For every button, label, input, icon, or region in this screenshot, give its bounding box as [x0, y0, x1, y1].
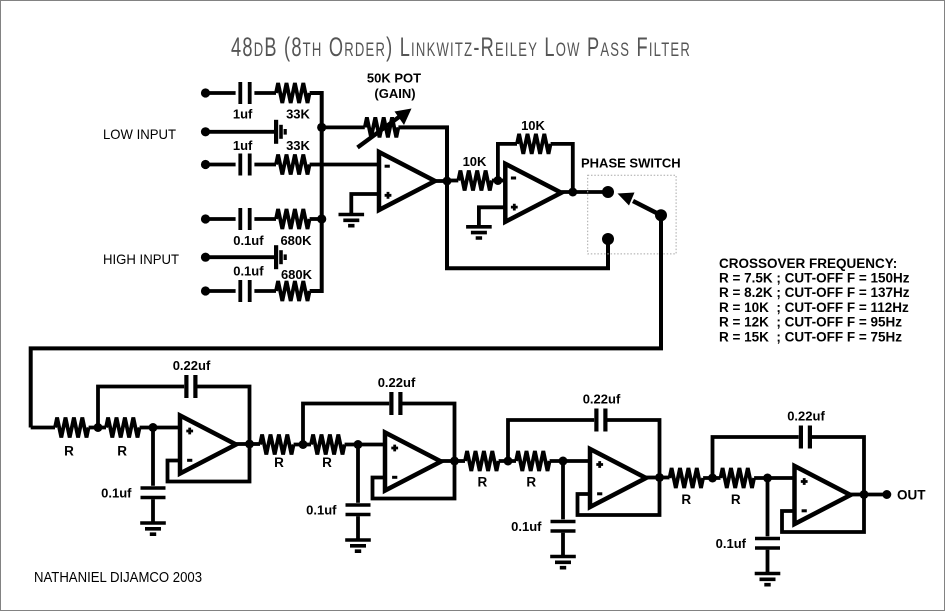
- svg-text:LOW INPUT: LOW INPUT: [103, 126, 176, 142]
- svg-text:R: R: [681, 492, 691, 507]
- svg-text:R = 10K ; CUT-OFF F = 112Hz: R = 10K ; CUT-OFF F = 112Hz: [719, 300, 909, 315]
- svg-text:0.22uf: 0.22uf: [378, 375, 416, 390]
- svg-text:R: R: [117, 443, 127, 458]
- svg-text:R: R: [322, 455, 332, 470]
- svg-text:R: R: [478, 474, 488, 489]
- svg-text:0.22uf: 0.22uf: [173, 358, 211, 373]
- svg-text:0.22uf: 0.22uf: [583, 392, 621, 407]
- svg-text:0.1uf: 0.1uf: [101, 486, 132, 501]
- svg-text:R = 8.2K ; CUT-OFF F = 137Hz: R = 8.2K ; CUT-OFF F = 137Hz: [719, 285, 910, 300]
- svg-text:680K: 680K: [281, 267, 313, 282]
- svg-text:0.1uf: 0.1uf: [233, 233, 264, 248]
- svg-text:10K: 10K: [521, 118, 545, 133]
- svg-text:1uf: 1uf: [233, 107, 253, 122]
- svg-text:10K: 10K: [463, 154, 487, 169]
- svg-text:680K: 680K: [280, 233, 312, 248]
- svg-text:OUT: OUT: [897, 488, 926, 503]
- svg-text:NATHANIEL DIJAMCO 2003: NATHANIEL DIJAMCO 2003: [34, 570, 202, 586]
- svg-text:0.1uf: 0.1uf: [716, 536, 747, 551]
- svg-text:(GAIN): (GAIN): [374, 86, 415, 101]
- svg-text:PHASE SWITCH: PHASE SWITCH: [581, 156, 681, 171]
- svg-text:0.1uf: 0.1uf: [306, 503, 337, 518]
- svg-text:48dB (8th Order) Linkwitz-Reil: 48dB (8th Order) Linkwitz-Reiley Low Pas…: [231, 32, 691, 62]
- svg-text:R: R: [731, 492, 741, 507]
- svg-text:50K POT: 50K POT: [367, 71, 421, 86]
- svg-text:R: R: [526, 474, 536, 489]
- svg-text:0.22uf: 0.22uf: [787, 409, 825, 424]
- svg-text:R: R: [274, 455, 284, 470]
- svg-text:33K: 33K: [286, 107, 310, 122]
- svg-text:33K: 33K: [286, 138, 310, 153]
- svg-text:R: R: [64, 443, 74, 458]
- svg-text:1uf: 1uf: [233, 138, 253, 153]
- svg-text:R = 15K ; CUT-OFF F = 75Hz: R = 15K ; CUT-OFF F = 75Hz: [719, 329, 902, 344]
- svg-text:HIGH INPUT: HIGH INPUT: [103, 251, 179, 267]
- svg-text:0.1uf: 0.1uf: [511, 519, 542, 534]
- svg-text:R = 12K ; CUT-OFF F = 95Hz: R = 12K ; CUT-OFF F = 95Hz: [719, 315, 902, 330]
- svg-text:CROSSOVER FREQUENCY:: CROSSOVER FREQUENCY:: [719, 256, 897, 271]
- svg-text:0.1uf: 0.1uf: [233, 264, 264, 279]
- svg-text:R = 7.5K ; CUT-OFF F = 150Hz: R = 7.5K ; CUT-OFF F = 150Hz: [719, 271, 910, 286]
